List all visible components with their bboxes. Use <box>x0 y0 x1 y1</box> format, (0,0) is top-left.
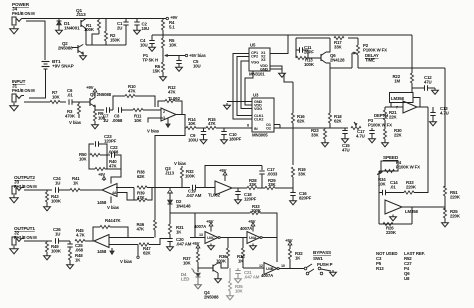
svg-text:180PF: 180PF <box>229 137 242 142</box>
svg-text:TL062: TL062 <box>168 96 181 101</box>
ground below C13 <box>432 120 434 122</box>
svg-text:+5V bias: +5V bias <box>189 53 206 58</box>
ground at U3 GND <box>226 103 228 105</box>
svg-text:U4A: U4A <box>249 235 257 240</box>
resistor R51 220K <box>444 186 446 187</box>
capacitor C20 .047 AM <box>167 238 172 240</box>
resistor R14 10K <box>186 126 196 129</box>
resistor R37 10K <box>197 248 199 250</box>
wire U4C output to U4A <box>220 237 247 239</box>
resistor R23 33K <box>324 128 326 129</box>
svg-text:4007A: 4007A <box>240 226 253 231</box>
battery BT1 +9V SNAP <box>42 61 50 63</box>
svg-text:100K: 100K <box>51 249 62 254</box>
wire +9V distribution rail <box>152 34 412 36</box>
wire Q1 source down <box>85 29 87 46</box>
resistor R29 33K <box>265 186 275 189</box>
svg-text:+5V: +5V <box>192 241 200 246</box>
resistor R13 100K <box>296 56 306 59</box>
ground below R9 <box>94 123 96 125</box>
wire R18 62K branch <box>329 68 331 113</box>
svg-text:47K: 47K <box>113 218 122 223</box>
svg-text:3: 3 <box>163 116 165 120</box>
svg-text:2: 2 <box>163 110 165 114</box>
svg-text:62K: 62K <box>297 119 306 124</box>
capacitor C9 100U <box>203 128 205 131</box>
svg-text:V bias: V bias <box>120 259 133 264</box>
U6A feedback loop wire <box>205 166 262 188</box>
resistor R3 470K to V bias <box>78 102 80 104</box>
resistor R15 47K <box>206 126 216 129</box>
diode D2 1N4148 <box>169 193 171 200</box>
svg-text:CP2: CP2 <box>251 55 258 59</box>
wire LM358 feedback <box>413 98 420 108</box>
capacitor C1 2U <box>125 19 127 22</box>
resistor R34b 1K <box>242 238 244 249</box>
pot P2 P100K W FX delay time <box>357 38 359 45</box>
svg-text:2N5088: 2N5088 <box>204 295 219 300</box>
svg-text:4.7U: 4.7U <box>356 134 365 139</box>
ground below R23 <box>324 141 326 143</box>
svg-text:CLK2: CLK2 <box>254 118 263 122</box>
ground below C5 <box>178 65 180 67</box>
svg-text:2N5088: 2N5088 <box>58 46 73 51</box>
resistor R35 10K <box>229 268 231 281</box>
op-amp U8B 1458 output1 mixer <box>94 235 109 248</box>
svg-text:10U: 10U <box>142 26 150 31</box>
svg-text:.068: .068 <box>75 248 84 253</box>
wire mix line <box>116 187 134 189</box>
wire oscillator feedback line <box>296 37 330 39</box>
+5V at U4C <box>210 228 212 232</box>
ground at J3 <box>13 195 15 198</box>
resistor R4 5.1 <box>162 19 164 21</box>
svg-text:150K: 150K <box>110 38 121 43</box>
wire U2A output to delay line <box>176 115 186 129</box>
svg-text:33K: 33K <box>268 182 277 187</box>
resistor R17 33K <box>334 36 344 39</box>
svg-text:1N4148: 1N4148 <box>176 204 191 209</box>
svg-text:PH1/B ON M: PH1/B ON M <box>12 11 35 16</box>
diode D1 1N4001 <box>58 19 60 22</box>
svg-text:TL062: TL062 <box>208 193 221 198</box>
svg-text:470K: 470K <box>65 114 76 119</box>
wire Q2 collector <box>82 44 84 47</box>
svg-text:IN: IN <box>254 127 258 131</box>
wire U7B feedback R26 <box>379 223 412 225</box>
wire Q4 collector <box>218 263 228 268</box>
svg-text:47U: 47U <box>424 80 432 85</box>
op-amp U8A 1458 output2 mixer <box>102 184 117 197</box>
svg-text:220K: 220K <box>450 214 461 219</box>
ground at U4C <box>210 244 212 246</box>
op-amp U6A TL062 <box>215 181 232 195</box>
wire Q2 base <box>72 47 78 49</box>
capacitor C16 820PF <box>290 192 295 194</box>
svg-text:10K: 10K <box>134 118 143 123</box>
ground bias arrow at U8B <box>111 248 113 251</box>
capacitor C5 10U <box>178 56 180 61</box>
input jack J1 <box>12 94 16 102</box>
svg-text:47U: 47U <box>342 148 350 153</box>
ground below C20 <box>169 245 171 247</box>
svg-text:10K: 10K <box>183 261 192 266</box>
resistor R1 100K <box>98 19 100 21</box>
capacitor C14 .01 <box>379 192 382 194</box>
svg-text:4.7U: 4.7U <box>440 111 449 116</box>
switch SW1 contacts <box>304 267 307 270</box>
ground below R43 <box>46 205 48 207</box>
capacitor C12 47U <box>412 87 424 89</box>
wire LFO square to integrator <box>427 107 429 193</box>
wire P4 to integrator input <box>379 170 381 172</box>
wire U8B noninverting input <box>109 244 138 246</box>
svg-text:MN3005: MN3005 <box>252 133 268 138</box>
svg-text:VGG: VGG <box>251 61 259 65</box>
ground at J2 <box>13 246 15 249</box>
svg-text:62K: 62K <box>143 251 152 256</box>
svg-text:10K: 10K <box>188 121 197 126</box>
ground at input jack <box>13 103 15 106</box>
V bias arrow at U2A <box>167 118 169 121</box>
svg-text:R13: R13 <box>376 266 384 271</box>
ground at Q2 emitter <box>82 54 84 56</box>
svg-text:BYPASS: BYPASS <box>313 250 331 255</box>
resistor R21 22K <box>384 107 386 110</box>
capacitor C17b .0033 in feedback <box>261 166 263 171</box>
resistor R11 10K <box>133 108 143 111</box>
wire output2 line <box>24 189 52 191</box>
wire U5 X1 pin to +9V rail <box>270 35 288 54</box>
resistor R18 62K <box>328 113 331 123</box>
ground below C9 <box>203 138 205 140</box>
svg-text:V bias: V bias <box>147 129 160 134</box>
svg-text:47K: 47K <box>128 89 137 94</box>
wire clock line CLK2 to U5 <box>233 54 252 120</box>
ground at C12 <box>434 88 436 90</box>
ground below R30 <box>384 141 386 143</box>
svg-text:1U: 1U <box>55 232 60 237</box>
svg-text:U4C: U4C <box>207 235 215 240</box>
transistor Q4 2N5088 <box>198 267 213 269</box>
svg-text:100K: 100K <box>251 208 262 213</box>
feedback capacitor C22 .0068 <box>111 152 113 157</box>
svg-text:P100K W FX: P100K W FX <box>368 123 392 128</box>
svg-text:220K: 220K <box>386 230 397 235</box>
svg-text:100K: 100K <box>304 62 315 67</box>
output jack J3 <box>12 186 16 194</box>
svg-text:.047 AM: .047 AM <box>244 275 260 280</box>
resistor R38 62K <box>137 186 147 189</box>
resistor R5 10K <box>162 35 164 38</box>
svg-text:47K: 47K <box>208 121 217 126</box>
wire U4A output <box>262 237 277 239</box>
resistor R43 100K <box>46 190 48 192</box>
pot P3 depth <box>351 126 361 129</box>
svg-text:10: 10 <box>281 264 285 268</box>
resistor R25 220K <box>443 208 446 218</box>
ground below C16 <box>292 199 294 201</box>
svg-text:1458: 1458 <box>97 200 107 205</box>
feedback resistor R10 47K <box>113 96 125 110</box>
svg-text:8: 8 <box>247 124 249 128</box>
ground below R25 <box>444 221 446 223</box>
svg-text:TIME: TIME <box>365 58 375 63</box>
wire Q6 collector down <box>326 63 330 68</box>
svg-text:U4B: U4B <box>266 266 274 271</box>
resistor R9 10K <box>94 110 96 111</box>
ground below D1 <box>58 28 60 30</box>
svg-text:+5V: +5V <box>285 238 293 243</box>
ground below D4 <box>197 283 199 285</box>
svg-text:2N4128: 2N4128 <box>330 58 345 63</box>
ground below C2 <box>136 28 138 30</box>
transistor Q6 2N4128 <box>320 54 322 61</box>
resistor R48 1K <box>68 250 71 260</box>
svg-text:100K: 100K <box>51 199 62 204</box>
capacitor C10 180PF <box>223 128 225 131</box>
svg-text:+9V: +9V <box>86 85 94 90</box>
svg-text:820PF: 820PF <box>299 196 312 201</box>
capacitor C7 1U <box>106 107 108 112</box>
wire U3 VDD pin <box>245 71 253 105</box>
ground below C10 <box>223 138 225 140</box>
wire gate drive line <box>169 210 171 213</box>
resistor R33 220K <box>404 191 414 194</box>
svg-text:47K: 47K <box>137 195 146 200</box>
wire U3 GND pin to ground <box>246 101 252 103</box>
svg-text:J113: J113 <box>165 171 175 176</box>
wire R16 62K branch <box>284 73 293 82</box>
capacitor C11 20PF <box>296 49 299 51</box>
svg-text:.01: .01 <box>390 185 396 190</box>
svg-text:LED: LED <box>181 277 189 282</box>
svg-text:62K: 62K <box>137 174 146 179</box>
svg-text:10K: 10K <box>169 43 178 48</box>
capacitor C15 47U <box>344 128 346 130</box>
svg-text:J113: J113 <box>76 12 86 17</box>
svg-text:.047 AM: .047 AM <box>176 242 192 247</box>
wire +9V rail corner down to R22 <box>411 35 413 73</box>
wire input signal <box>24 101 50 103</box>
svg-text:100K: 100K <box>84 27 95 32</box>
svg-text:U5: U5 <box>250 43 256 48</box>
wire U6A output <box>232 187 247 189</box>
resistor R7 10K <box>50 100 60 103</box>
svg-text:4007A: 4007A <box>194 224 207 229</box>
svg-text:33K: 33K <box>298 172 307 177</box>
feedback resistor R12 47K <box>158 101 165 107</box>
svg-text:220K: 220K <box>406 185 417 190</box>
+5V at U6A <box>224 177 226 181</box>
svg-text:47K: 47K <box>136 227 145 232</box>
wire feedback to U8A input <box>106 155 108 169</box>
ground at switch <box>332 270 334 272</box>
svg-text:4.7K: 4.7K <box>76 233 86 238</box>
svg-text:120PF: 120PF <box>104 139 117 144</box>
resistor R47 62K <box>139 243 149 246</box>
+9V arrow at U8A <box>103 179 105 181</box>
svg-text:V bias: V bias <box>174 161 187 166</box>
wire clock line CLK1 to U5 <box>237 57 252 116</box>
capacitor C6 .01 <box>68 99 70 104</box>
svg-text:100K: 100K <box>185 174 196 179</box>
ground below R35 <box>229 294 231 296</box>
capacitor C2 10U <box>136 19 138 22</box>
svg-text:4007A: 4007A <box>261 273 274 278</box>
svg-text:12: 12 <box>259 264 263 268</box>
svg-text:120PF: 120PF <box>244 197 257 202</box>
wire U8A noninverting stub <box>117 193 134 201</box>
wire output1 line <box>24 240 52 242</box>
resistor R16 62K <box>291 113 294 123</box>
svg-text:2U: 2U <box>117 26 122 31</box>
IC U5 MN3101 <box>249 48 270 71</box>
svg-text:SW1: SW1 <box>313 256 323 261</box>
svg-text:.0033: .0033 <box>267 172 278 177</box>
resistor R41 1K <box>70 188 80 191</box>
wire battery feed down from jack <box>26 21 45 60</box>
wire C11 R10 node <box>295 38 297 58</box>
wire control node to U4B <box>243 267 264 269</box>
pot P4 speed <box>381 161 398 171</box>
wire P1 wiper to +5V bias node <box>168 55 185 57</box>
ground below R6 <box>162 75 164 77</box>
op-amp U7A LM358 label box <box>390 93 414 103</box>
svg-text:+9V SNAP: +9V SNAP <box>52 64 74 69</box>
svg-text:U3: U3 <box>253 93 259 98</box>
ground at U4A <box>252 244 254 246</box>
resistor R33b 100K gate <box>250 211 260 214</box>
ground below R49 <box>46 254 48 256</box>
svg-text:PUSH P: PUSH P <box>317 262 333 267</box>
capacitor C8 .0068 <box>118 107 120 112</box>
wire U7B output <box>402 206 445 208</box>
svg-text:.01: .01 <box>67 93 73 98</box>
svg-text:22K: 22K <box>394 133 403 138</box>
ground at U5 <box>281 71 283 73</box>
resistor R6 15K <box>161 62 164 72</box>
resistor R26 220K <box>383 222 393 225</box>
wire U3 VGG pin <box>241 61 252 109</box>
capacitor C18 120PF <box>237 188 239 191</box>
svg-text:15K: 15K <box>152 69 161 74</box>
resistor R39 47K parallel <box>134 188 137 201</box>
wire U8A inverting input <box>117 187 134 189</box>
wire delay output node to depth network <box>280 127 348 129</box>
capacitor C21 .047 AM <box>237 268 239 270</box>
feedback resistor R44 47K <box>93 227 100 241</box>
svg-text:13: 13 <box>199 233 203 237</box>
capacitor C26 1U <box>55 238 57 243</box>
svg-text:5.1: 5.1 <box>169 25 175 30</box>
ground below C17 <box>371 137 373 139</box>
V bias stub <box>137 245 139 257</box>
svg-text:20PF: 20PF <box>304 50 314 55</box>
+5V at U4A <box>252 228 254 232</box>
ground below R48 <box>69 263 71 265</box>
svg-text:1U: 1U <box>103 118 108 123</box>
ground bias at U7B <box>392 215 394 217</box>
wire U4C input <box>195 213 205 238</box>
svg-text:.0068: .0068 <box>112 118 123 123</box>
wire LFO feed line <box>330 67 352 69</box>
svg-text:10K: 10K <box>52 95 61 100</box>
wire LM358 input <box>385 106 403 108</box>
svg-text:33K: 33K <box>334 45 343 50</box>
wire feedback filter branch <box>292 128 294 165</box>
svg-text:Q5 2N5088: Q5 2N5088 <box>90 92 112 97</box>
IC U3 MN3005 <box>252 98 274 132</box>
capacitor C4 10U <box>151 35 153 40</box>
ground below C15 <box>344 137 346 139</box>
wire Q6 emitter to R17 node <box>326 38 330 52</box>
+5V and R32b 1K pullup <box>289 245 291 247</box>
svg-text:+9V: +9V <box>98 172 105 177</box>
svg-text:33K: 33K <box>249 182 258 187</box>
svg-text:47K: 47K <box>168 90 177 95</box>
svg-text:1458: 1458 <box>97 249 107 254</box>
resistor R28 33K <box>247 186 257 189</box>
wire dry signal tap to mix stage <box>155 128 185 188</box>
ground below C4 <box>151 45 153 47</box>
ground at Q4 emitter <box>217 273 219 277</box>
LED D4 <box>197 268 199 272</box>
op-amp U7A triangle <box>403 101 417 113</box>
svg-text:1U: 1U <box>55 181 60 186</box>
V bias stub at U2A noninverting input <box>148 118 163 123</box>
wire U4B output to switch <box>279 268 304 270</box>
svg-text:X3: X3 <box>261 58 265 62</box>
wire +9V rail from jack <box>24 18 166 20</box>
svg-text:TP 5K H: TP 5K H <box>142 58 158 63</box>
feedback resistor R40 47K <box>89 155 95 169</box>
svg-text:100U: 100U <box>188 138 198 143</box>
svg-text:PH1/B ON M: PH1/B ON M <box>12 88 35 93</box>
svg-text:10U: 10U <box>140 43 148 48</box>
feedback resistor R50 10K <box>90 153 100 156</box>
svg-text:1N4001: 1N4001 <box>64 26 80 31</box>
svg-text:.0068: .0068 <box>108 150 119 155</box>
svg-text:+5V: +5V <box>206 219 214 224</box>
resistor R45 4.7K <box>75 239 85 242</box>
resistor R2 150K <box>105 19 107 32</box>
power jack J4 <box>12 17 16 25</box>
svg-text:V bias: V bias <box>69 120 82 125</box>
svg-text:VGG: VGG <box>254 107 262 111</box>
wire battery to input jack switch <box>29 69 46 98</box>
wire U8B inverting input <box>109 237 128 239</box>
op-amp U7B LM358 triangle <box>385 200 402 214</box>
wire LM358 output <box>417 106 428 108</box>
+9V supply arrow at Q5 collector <box>94 94 96 98</box>
svg-text:10K: 10K <box>235 289 244 294</box>
svg-text:10K: 10K <box>79 157 88 162</box>
ground below C18 <box>237 198 239 200</box>
resistor R46 47K from mix node <box>154 188 156 221</box>
svg-text:P100K W FX: P100K W FX <box>363 48 387 53</box>
svg-text:62K: 62K <box>334 119 343 124</box>
capacitor C24 1U <box>55 187 57 192</box>
svg-text:U8: U8 <box>404 276 410 281</box>
capacitor C25 .068 <box>69 241 71 244</box>
resistor R19 33K <box>291 167 294 177</box>
resistor R49 100K <box>46 241 48 242</box>
resistor R30 22K <box>384 128 386 129</box>
svg-text:22K: 22K <box>389 115 398 120</box>
wire down right side to speed network <box>444 68 446 186</box>
svg-text:V bias: V bias <box>107 205 120 210</box>
